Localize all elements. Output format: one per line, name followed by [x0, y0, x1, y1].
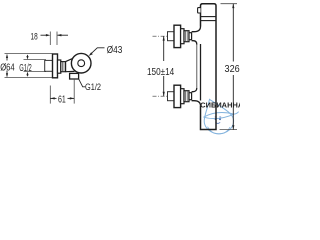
thread ridges — [62, 62, 64, 72]
body top section lines — [201, 17, 217, 21]
svg-text:18: 18 — [31, 32, 38, 43]
upper inlet nipple — [168, 32, 175, 41]
dimension 18 extension lines — [50, 32, 57, 46]
upper inlet end piece — [189, 33, 192, 40]
lower inlet step — [181, 89, 184, 104]
dimension O64 extension lines — [5, 54, 53, 78]
dimension 326 line and arrows — [232, 4, 234, 130]
handle hub — [78, 60, 85, 67]
svg-text:СИБИАННА: СИБИАННА — [200, 101, 240, 110]
dimension 61 line and arrows — [50, 97, 74, 99]
outlet nut G1/2 — [70, 73, 79, 79]
svg-text:150±14: 150±14 — [147, 67, 174, 78]
lower inlet centerline — [153, 95, 174, 97]
leader G1/2 outlet — [79, 79, 85, 87]
body cone — [66, 58, 75, 71]
outlet centerline — [73, 79, 75, 104]
dimension 326 extension lines — [220, 4, 238, 130]
dimension 150+-14 line and arrows — [163, 36, 165, 96]
collar behind valve — [58, 60, 61, 73]
watermark drop logo — [204, 99, 239, 134]
lower inlet nut — [184, 91, 189, 102]
svg-text:326: 326 — [225, 64, 241, 75]
wall nipple G1/2 — [45, 60, 53, 71]
lower elbow curves — [192, 88, 201, 106]
dimension 61 left extension — [49, 86, 51, 104]
svg-text:Ø64: Ø64 — [0, 63, 15, 74]
lower inlet end piece — [189, 93, 192, 100]
lower inlet flange — [174, 85, 181, 107]
lower inlet nipple — [168, 92, 175, 101]
dimension O64 arrows — [6, 54, 8, 78]
leader O43 — [89, 48, 105, 56]
svg-text:G1/2: G1/2 — [19, 63, 32, 74]
wall flange O64 — [53, 54, 58, 78]
upper inlet nut ridges — [186, 31, 188, 42]
upper inlet nut — [184, 31, 189, 42]
svg-text:Ø43: Ø43 — [107, 45, 123, 56]
handle circle O43 — [71, 53, 91, 73]
body outline — [201, 4, 217, 130]
watermark face — [215, 117, 222, 124]
sleeve edge between inlets — [196, 45, 198, 89]
lower inlet nut ridges — [186, 91, 188, 102]
upper inlet centerline — [153, 35, 174, 37]
body side tab — [198, 8, 201, 13]
dimension G1/2 rear thread lines — [24, 60, 47, 72]
svg-text:G1/2: G1/2 — [85, 82, 101, 93]
threaded block — [61, 62, 66, 72]
dimension G1/2 rear arrows — [26, 55, 28, 76]
dimension 18 arrows — [41, 34, 69, 36]
svg-text:61: 61 — [58, 95, 66, 106]
upper elbow curves — [192, 27, 201, 45]
upper inlet step — [181, 29, 184, 44]
upper inlet flange — [174, 25, 181, 47]
